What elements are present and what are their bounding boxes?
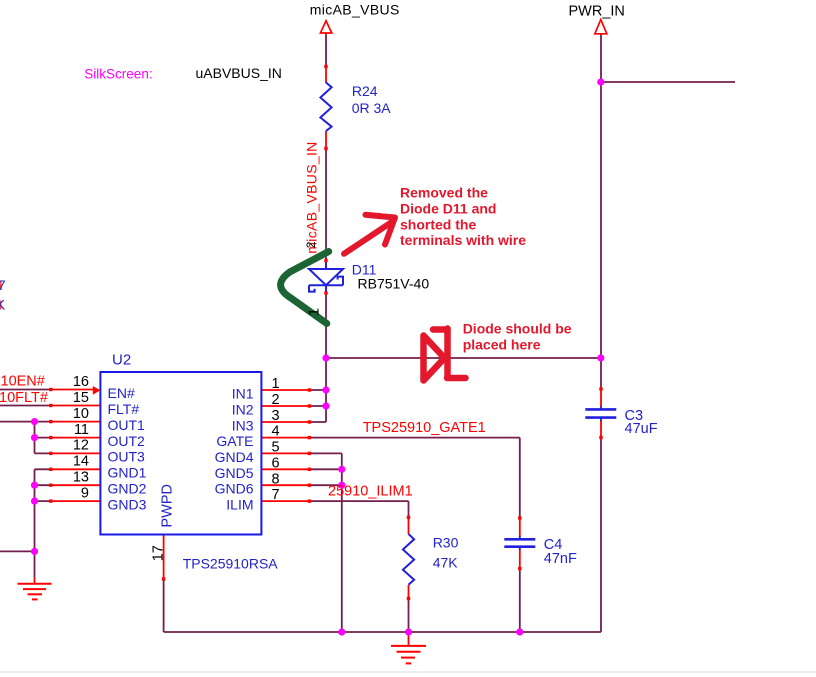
svg-text:R30: R30 — [433, 535, 459, 551]
svg-text:47uF: 47uF — [625, 421, 658, 437]
svg-text:1: 1 — [272, 376, 280, 392]
svg-text:13: 13 — [73, 470, 89, 486]
svg-text:IN2: IN2 — [232, 401, 254, 417]
svg-text:15: 15 — [73, 390, 89, 406]
svg-text:Diode should be: Diode should be — [463, 321, 572, 337]
svg-text:4: 4 — [272, 424, 280, 440]
svg-text:PWR_IN: PWR_IN — [569, 4, 625, 20]
svg-text:8: 8 — [272, 471, 280, 487]
svg-text:micAB_VBUS_IN: micAB_VBUS_IN — [304, 141, 320, 253]
svg-text:ILIM: ILIM — [226, 497, 253, 513]
svg-text:PWPD: PWPD — [160, 484, 176, 528]
svg-text:OUT1: OUT1 — [108, 417, 146, 433]
svg-text:10FLT#: 10FLT# — [0, 390, 48, 406]
svg-text:TPS25910RSA: TPS25910RSA — [183, 556, 279, 572]
svg-text:RB751V-40: RB751V-40 — [358, 276, 430, 292]
svg-text:placed here: placed here — [463, 337, 541, 353]
svg-text:6: 6 — [272, 455, 280, 471]
svg-text:U2: U2 — [112, 352, 131, 369]
svg-text:Removed the: Removed the — [400, 185, 488, 201]
svg-text:IN3: IN3 — [232, 417, 254, 433]
svg-text:17: 17 — [151, 545, 167, 561]
svg-text:shorted the: shorted the — [400, 216, 476, 232]
svg-text:1: 1 — [306, 308, 323, 316]
svg-text:11: 11 — [74, 422, 89, 438]
svg-text:K: K — [0, 297, 6, 313]
svg-text:GND3: GND3 — [108, 496, 147, 512]
svg-text:OUT2: OUT2 — [108, 433, 146, 449]
svg-text:GND2: GND2 — [108, 481, 147, 497]
svg-text:R24: R24 — [352, 83, 378, 99]
svg-text:47nF: 47nF — [544, 551, 577, 567]
svg-text:uABVBUS_IN: uABVBUS_IN — [196, 65, 282, 81]
svg-text:7: 7 — [0, 277, 6, 293]
svg-text:10: 10 — [73, 406, 89, 422]
svg-text:GND5: GND5 — [215, 465, 254, 481]
svg-text:14: 14 — [73, 454, 89, 470]
svg-text:FLT#: FLT# — [108, 401, 140, 417]
svg-text:47K: 47K — [433, 555, 459, 571]
svg-text:5: 5 — [272, 440, 280, 456]
svg-text:9: 9 — [81, 485, 89, 501]
svg-text:25910_ILIM1: 25910_ILIM1 — [328, 483, 413, 499]
svg-text:2: 2 — [272, 392, 280, 408]
svg-text:12: 12 — [73, 438, 89, 454]
svg-text:GND1: GND1 — [108, 465, 147, 481]
svg-text:2: 2 — [304, 241, 318, 248]
svg-text:GND6: GND6 — [215, 481, 254, 497]
svg-text:10EN#: 10EN# — [1, 374, 45, 390]
svg-text:Diode D11 and: Diode D11 and — [400, 201, 496, 217]
svg-text:EN#: EN# — [108, 385, 135, 401]
svg-text:TPS25910_GATE1: TPS25910_GATE1 — [363, 420, 486, 436]
svg-text:0R 3A: 0R 3A — [352, 100, 392, 116]
svg-text:terminals with wire: terminals with wire — [400, 232, 526, 248]
svg-text:7: 7 — [272, 487, 280, 503]
svg-text:3: 3 — [272, 408, 280, 424]
svg-text:micAB_VBUS: micAB_VBUS — [310, 2, 400, 18]
svg-text:SilkScreen:: SilkScreen: — [84, 67, 152, 82]
svg-text:IN1: IN1 — [232, 385, 254, 401]
svg-text:GND4: GND4 — [215, 449, 254, 465]
svg-text:D11: D11 — [352, 262, 377, 278]
svg-text:16: 16 — [73, 374, 89, 390]
svg-text:OUT3: OUT3 — [108, 449, 146, 465]
svg-text:GATE: GATE — [216, 433, 253, 449]
